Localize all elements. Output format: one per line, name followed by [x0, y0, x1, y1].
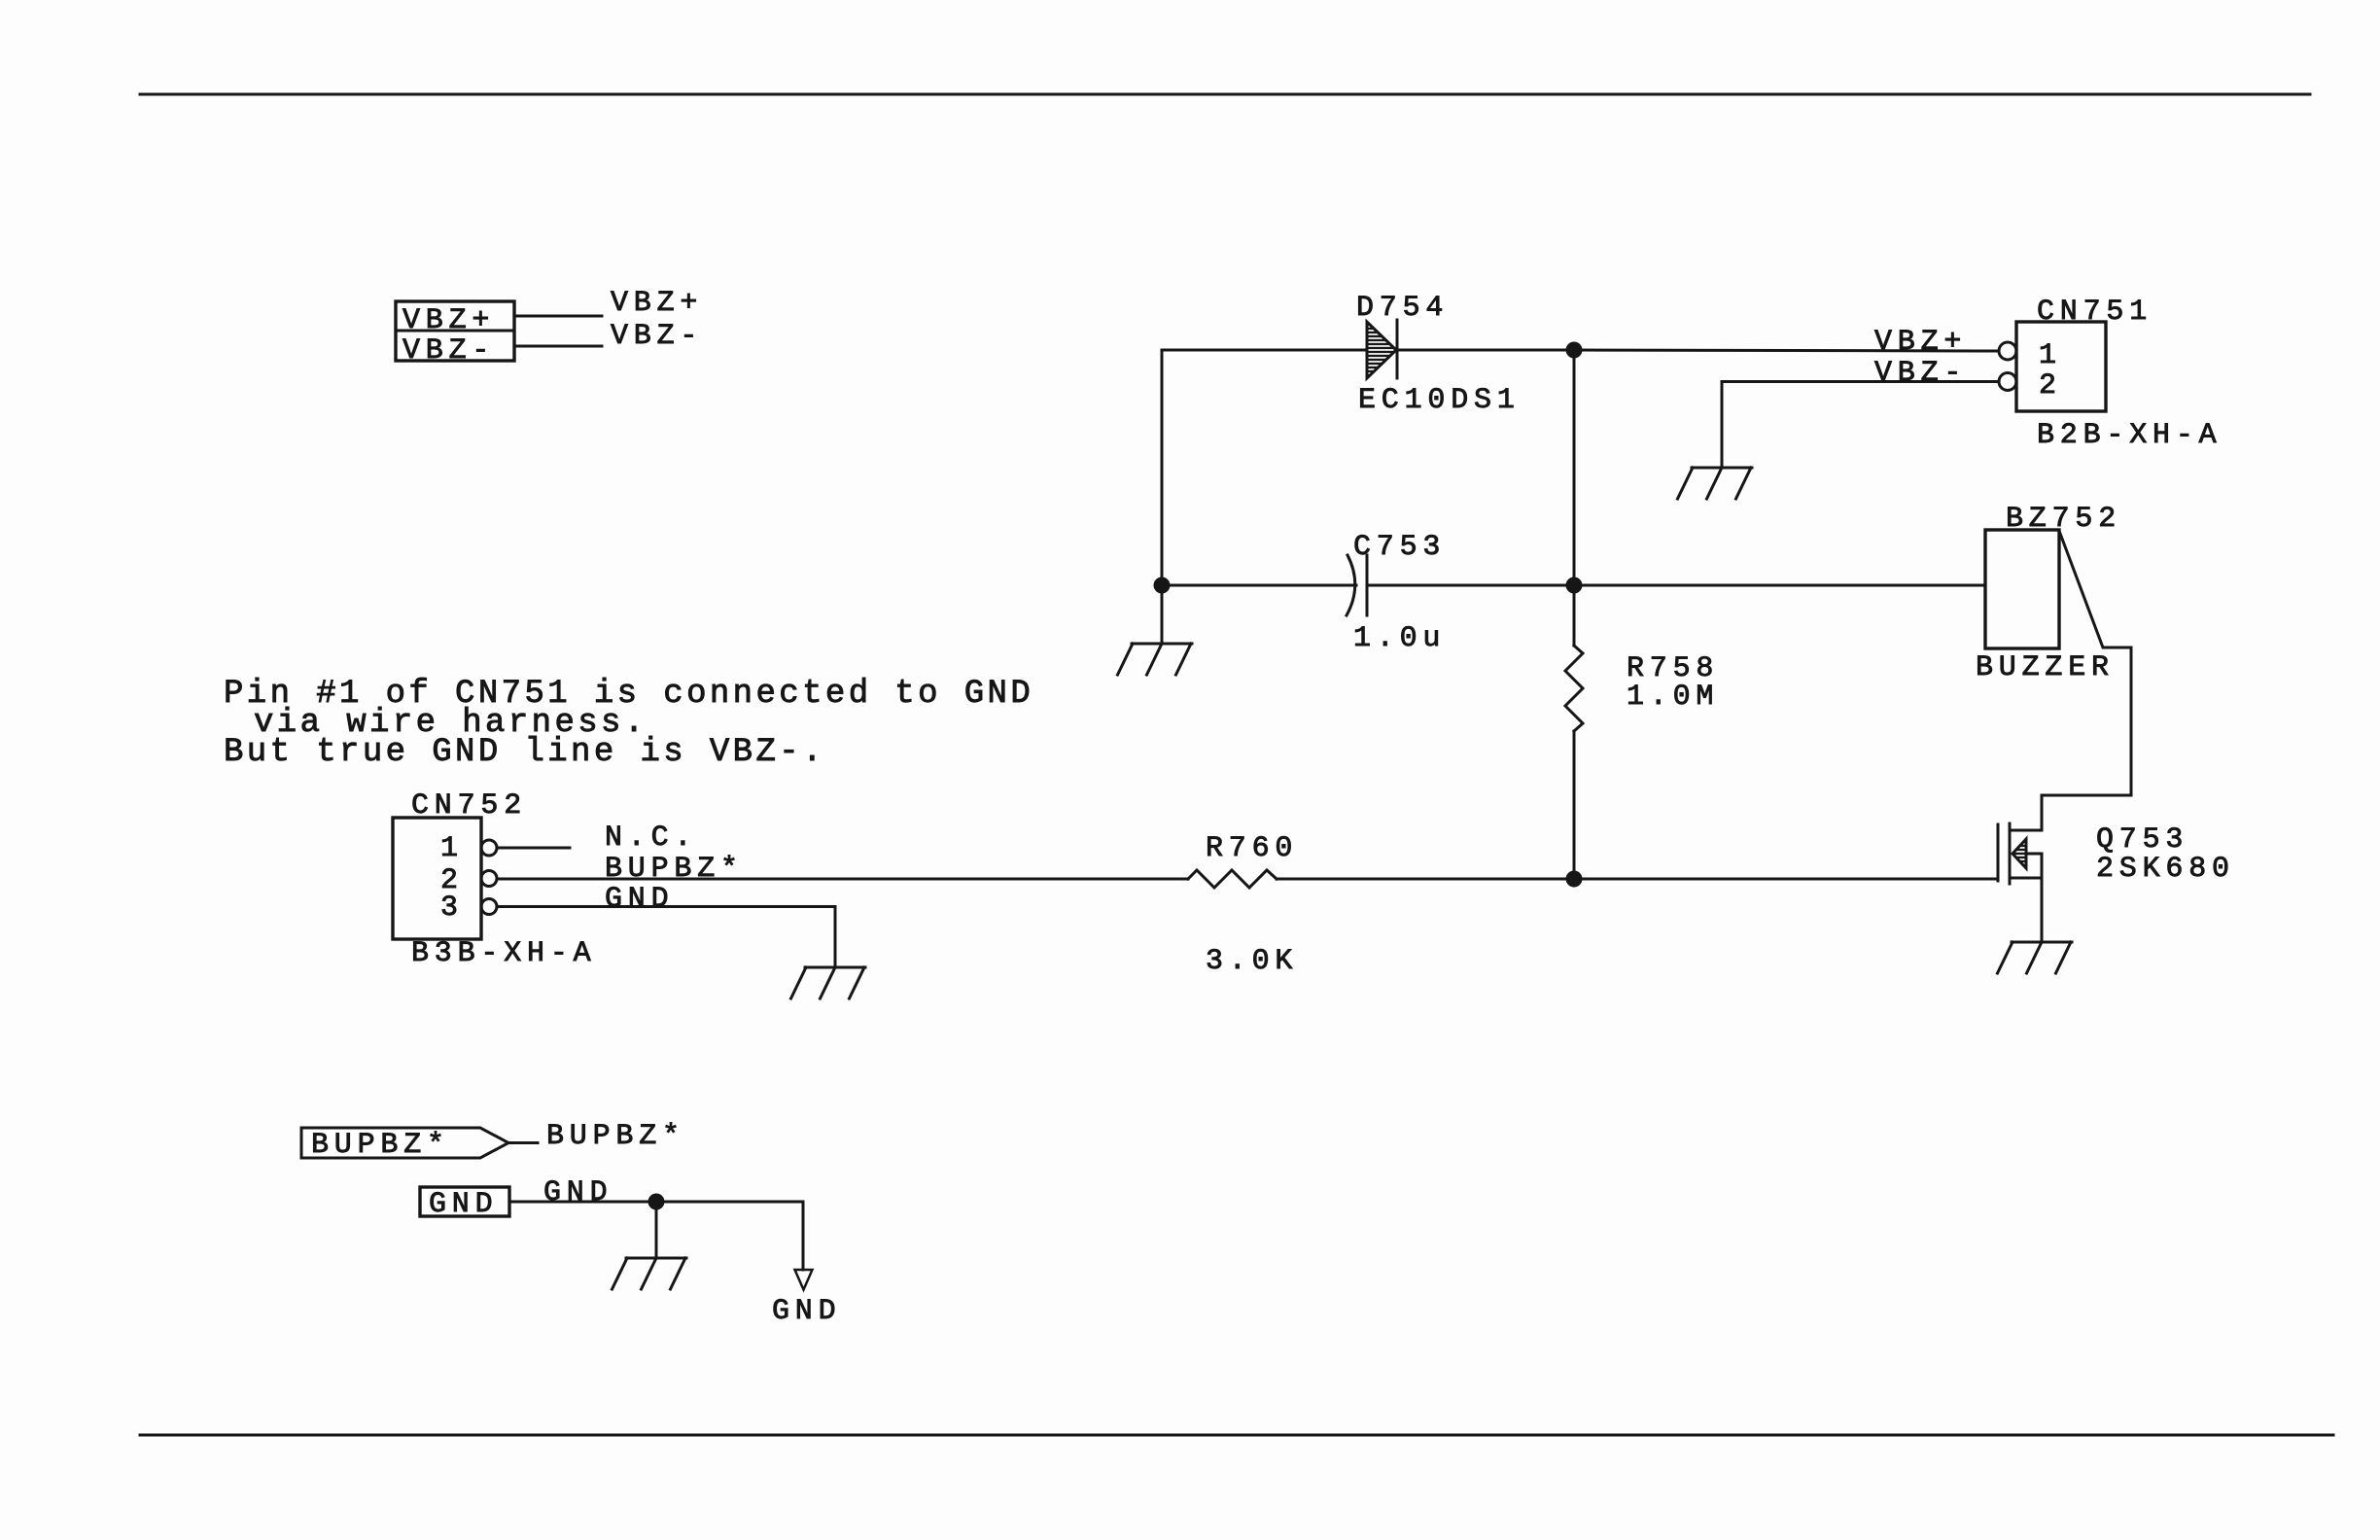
wire: horizontal diode anode line	[1162, 349, 1367, 352]
svg-text:GND: GND	[429, 1188, 498, 1221]
ground (chassis) bottom GND	[612, 1258, 687, 1289]
svg-text:BUPBZ*: BUPBZ*	[605, 853, 744, 886]
svg-text:1.0M: 1.0M	[1627, 681, 1719, 714]
transistor Q753 (2SK680 MOSFET)	[1998, 823, 2042, 942]
svg-text:B3B-XH-A: B3B-XH-A	[411, 937, 596, 970]
pin 2 circle	[481, 871, 497, 887]
svg-text:3: 3	[440, 892, 464, 925]
wire VBZ- stub	[514, 345, 602, 348]
node: cap right junction	[1566, 577, 1583, 594]
svg-text:Q753: Q753	[2096, 823, 2188, 857]
wire: C753 right segment to node	[1367, 584, 1574, 587]
svg-text:VBZ+: VBZ+	[402, 304, 495, 337]
svg-text:VBZ-: VBZ-	[1874, 357, 1967, 390]
ground (arrow) GND	[795, 1270, 813, 1290]
svg-text:VBZ-: VBZ-	[611, 320, 703, 353]
pin 3 circle	[481, 899, 497, 915]
channel bar	[2009, 823, 2012, 884]
svg-text:BUZZER: BUZZER	[1976, 651, 2115, 684]
wire: BUPBZ* line from CN752 pin2 to R760	[497, 878, 1188, 881]
wire: down to chassis ground	[655, 1202, 658, 1258]
svg-text:VBZ+: VBZ+	[1874, 326, 1967, 359]
svg-text:1.0u: 1.0u	[1353, 622, 1446, 655]
svg-text:BUPBZ*: BUPBZ*	[311, 1129, 450, 1162]
ground (chassis) Q753 source	[1998, 942, 2073, 973]
svg-text:C753: C753	[1353, 531, 1446, 564]
wire: C753 left segment	[1162, 584, 1356, 587]
wire: VBZ- from pin2 to ground	[1722, 382, 1999, 469]
connector CN752	[393, 818, 481, 939]
wire: GND net	[509, 1201, 803, 1204]
wire: flag stub	[508, 1141, 538, 1144]
source stub	[2010, 877, 2042, 880]
connector CN751	[2016, 322, 2106, 411]
buzzer BZ752	[1985, 530, 2059, 648]
wire: node to Q753 gate	[1574, 878, 1998, 881]
svg-text:But true GND line is VBZ-.: But true GND line is VBZ-.	[224, 734, 825, 771]
wire: buzzer lower terminal diagonal	[2042, 531, 2131, 830]
node: cap left junction	[1154, 577, 1171, 594]
resistor R760	[1188, 870, 1277, 888]
ground (chassis) VBZ-	[1678, 468, 1753, 499]
wire: node to CN751 pin1	[1574, 350, 1999, 351]
svg-text:CN751: CN751	[2037, 296, 2152, 329]
svg-text:VBZ-: VBZ-	[402, 334, 495, 367]
svg-text:1: 1	[2039, 339, 2062, 372]
ground (chassis) under cap-left node	[1118, 644, 1193, 675]
ground (chassis) CN752 pin3	[791, 967, 866, 998]
svg-text:3.0K: 3.0K	[1206, 945, 1298, 978]
pin 1 circle	[1999, 342, 2016, 360]
wire: N.C. stub	[497, 847, 570, 850]
body arrow	[2012, 839, 2026, 868]
wire: down to GND arrow	[802, 1202, 805, 1270]
wire: vertical node to C753 line	[1573, 350, 1576, 585]
svg-text:BUPBZ*: BUPBZ*	[546, 1120, 685, 1153]
wire VBZ+ stub	[514, 315, 602, 318]
node: diode output junction	[1566, 342, 1583, 359]
svg-text:1: 1	[440, 832, 464, 865]
svg-text:B2B-XH-A: B2B-XH-A	[2037, 419, 2222, 452]
svg-text:CN752: CN752	[411, 789, 527, 822]
VBZ+ / VBZ- source box	[396, 301, 514, 361]
svg-text:EC10DS1: EC10DS1	[1358, 384, 1521, 417]
gate bar	[1997, 824, 2000, 881]
GND source box	[420, 1187, 509, 1216]
svg-text:VBZ+: VBZ+	[611, 287, 703, 320]
wire: node to buzzer	[1574, 584, 1985, 587]
diode D754	[1367, 322, 1396, 378]
pin 1 circle	[481, 840, 497, 856]
node: R758 bottom junction	[1566, 871, 1583, 888]
resistor R758	[1565, 585, 1583, 879]
capacitor C753	[1347, 555, 1355, 615]
svg-text:BZ752: BZ752	[2006, 503, 2121, 536]
svg-text:2: 2	[2039, 369, 2062, 402]
wire: GND from pin3	[497, 907, 835, 968]
svg-text:GND: GND	[772, 1295, 841, 1328]
drain stub	[2010, 829, 2042, 832]
pin 2 circle	[1999, 373, 2016, 391]
svg-text:GND: GND	[605, 883, 674, 916]
svg-text:D754: D754	[1356, 292, 1449, 325]
flag BUPBZ*	[301, 1128, 508, 1158]
svg-text:R760: R760	[1206, 832, 1298, 865]
wire: R760 to node	[1277, 878, 1574, 881]
wire: diode cathode to node	[1397, 349, 1574, 352]
source to ground	[2041, 878, 2044, 942]
wire: stub to ground under cap-left node	[1161, 585, 1164, 644]
node: GND junction	[648, 1194, 665, 1210]
svg-text:N.C.: N.C.	[605, 822, 697, 855]
svg-text:2SK680: 2SK680	[2096, 853, 2235, 886]
wire: left vertical from diode line to C753 node	[1161, 350, 1164, 585]
svg-text:GND: GND	[543, 1176, 612, 1209]
